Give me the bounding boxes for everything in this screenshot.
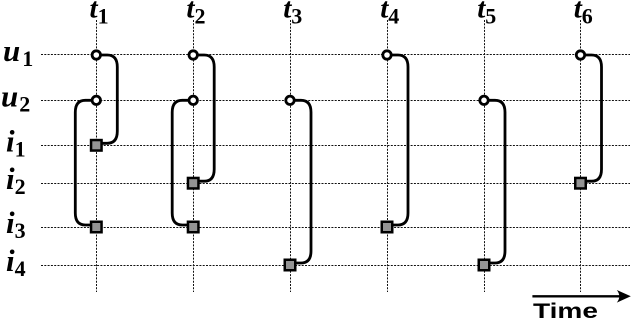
edge t3 u2-i4 [290,100,311,263]
svg-text:t4: t4 [380,0,399,29]
horizontal gridline row i3 [41,227,630,229]
edge t2 u1-i2 [193,55,214,181]
edge t2 u2-i3 [172,100,193,225]
time axis arrowhead [617,290,631,303]
edge t4 u1-i3 [387,55,408,225]
vertical gridline t6 [580,20,582,292]
svg-text:t2: t2 [186,0,205,29]
user node u1 at t4 [383,51,391,59]
edge t5 u2-i4 [484,100,505,263]
svg-text:Time: Time [533,299,598,320]
vertical gridline t3 [290,20,292,292]
user node u1 at t6 [576,51,584,59]
edge t1 u1-i1 [96,55,117,143]
user node u2 at t3 [286,96,294,104]
svg-text:t5: t5 [477,0,496,29]
item node i3 at t4 [382,222,393,233]
vertical gridline t2 [193,20,195,292]
svg-text:u1: u1 [3,33,33,71]
user node u2 at t2 [189,96,197,104]
user node u1 at t2 [189,51,197,59]
edge t1 u2-i3 [75,100,96,225]
item node i3 at t1 [91,222,102,233]
item node i2 at t2 [188,178,199,189]
vertical gridline t5 [484,20,486,292]
svg-text:i4: i4 [6,243,26,281]
svg-text:i3: i3 [6,205,26,243]
horizontal gridline row i4 [41,265,630,267]
svg-text:i2: i2 [6,161,26,199]
horizontal gridline row i2 [41,183,630,185]
svg-text:t1: t1 [90,0,109,29]
user node u2 at t1 [92,96,100,104]
svg-text:u2: u2 [1,78,30,116]
item node i3 at t2 [188,222,199,233]
user node u2 at t5 [480,96,488,104]
svg-text:t3: t3 [283,0,302,29]
item node i4 at t3 [285,260,296,271]
vertical gridline t1 [96,20,98,292]
svg-text:t6: t6 [574,0,593,29]
svg-text:i1: i1 [6,123,26,161]
item node i1 at t1 [91,140,102,151]
edge t6 u1-i2 [581,55,602,181]
item node i4 at t5 [479,260,490,271]
horizontal gridline row i1 [41,145,630,147]
horizontal gridline row u1 [41,54,630,56]
time axis arrow [532,295,623,297]
item node i2 at t6 [575,178,586,189]
horizontal gridline row u2 [41,100,630,102]
user node u1 at t1 [92,51,100,59]
vertical gridline t4 [387,20,389,292]
